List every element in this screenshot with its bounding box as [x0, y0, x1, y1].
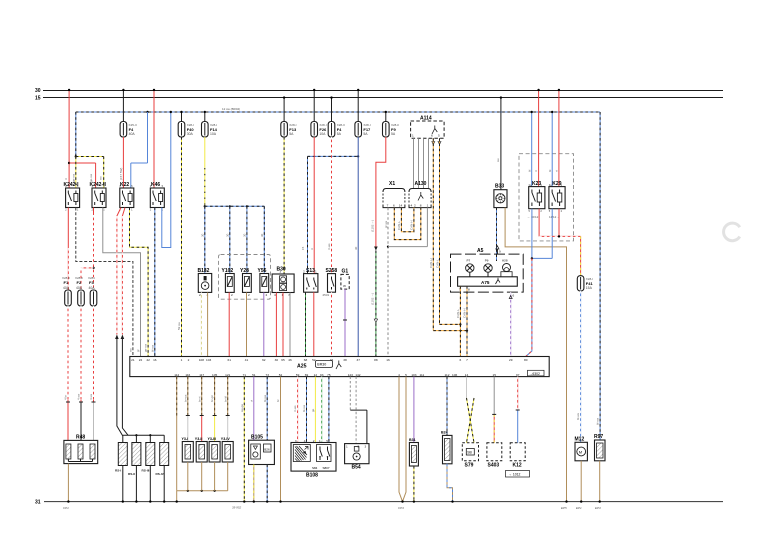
- wire F9 jog to sensor line (red): [370, 137, 385, 251]
- wire B30 out 1 (red): [275, 293, 277, 357]
- wire B132 out left (ge-ws): [200, 292, 202, 356]
- svg-text:B33: B33: [495, 184, 504, 190]
- svg-text:BR30: BR30: [317, 363, 326, 367]
- svg-text:br-bl: br-bl: [223, 396, 227, 402]
- wire A25 pin51 violet to B105: [253, 377, 255, 441]
- wire K23/K29 blue link: [531, 209, 553, 260]
- svg-text:CAN-H: CAN-H: [410, 221, 414, 231]
- svg-text:5A: 5A: [289, 132, 294, 136]
- svg-text:105: 105: [212, 373, 217, 377]
- svg-text:(157 5W): (157 5W): [119, 168, 123, 180]
- svg-text:42: 42: [146, 358, 150, 362]
- svg-text:40A: 40A: [89, 286, 96, 290]
- svg-text:A130: A130: [415, 181, 427, 187]
- svg-text:Y55: Y55: [258, 268, 267, 274]
- wire F3 to R48 (rt dashed then ws): [92, 306, 96, 440]
- svg-text:12: 12: [314, 373, 318, 377]
- fuse F1: [65, 290, 72, 306]
- bus 31: [44, 501, 723, 503]
- fuse F4 (5A) feed wire from bus 15: [330, 96, 332, 122]
- fuse F40: [178, 122, 194, 138]
- svg-text:rt-ws: rt-ws: [327, 243, 331, 250]
- svg-text:88: 88: [374, 358, 378, 362]
- wire A25 pin12 yellow to B108: [314, 377, 316, 443]
- svg-text:bl-sw: bl-sw: [302, 404, 306, 412]
- wire A25 pin52 brown to ground: [279, 377, 281, 503]
- svg-text:30A: 30A: [187, 132, 194, 136]
- svg-text:RS-III: RS-III: [142, 469, 150, 473]
- svg-text:ge-sw: ge-sw: [144, 343, 148, 352]
- svg-text:29: 29: [509, 358, 513, 362]
- A5 top pin 9: [496, 246, 501, 254]
- svg-text:CAN-H: CAN-H: [429, 259, 433, 269]
- wire B33 to H28 (bl-sw): [496, 208, 498, 261]
- svg-text:→ 10/12: → 10/12: [527, 215, 539, 219]
- svg-text:30: 30: [200, 233, 204, 237]
- svg-text:G1: G1: [342, 268, 349, 274]
- wire Y55 to A25 (violet): [263, 292, 265, 356]
- svg-text:30: 30: [243, 233, 247, 237]
- svg-text:69: 69: [305, 373, 309, 377]
- svg-text:rt-ws: rt-ws: [293, 405, 297, 412]
- fuse F4 5A: [328, 122, 345, 138]
- svg-text:61: 61: [227, 358, 231, 362]
- wire A25 pin114 brown to ground rail: [176, 377, 178, 503]
- svg-text:br-rt: br-rt: [197, 396, 201, 402]
- svg-text:B24: B24: [441, 431, 448, 435]
- R97 ground brown: [599, 461, 601, 503]
- svg-text:br: br: [276, 399, 280, 402]
- svg-text:16: 16: [386, 358, 390, 362]
- svg-text:A5: A5: [477, 248, 484, 254]
- svg-text:117: 117: [199, 373, 204, 377]
- svg-text:9: 9: [499, 250, 501, 254]
- fuse F26: [311, 122, 327, 138]
- svg-text:121: 121: [225, 373, 230, 377]
- svg-text:3: 3: [295, 439, 297, 443]
- svg-text:31: 31: [35, 500, 41, 506]
- A25 bottom pin numbers: [174, 373, 519, 377]
- svg-text:2: 2: [248, 293, 250, 297]
- svg-text:S13: S13: [306, 268, 315, 274]
- A75 CAN stubs (or-sw): [456, 286, 470, 330]
- svg-text:22: 22: [139, 358, 143, 362]
- motor B33: [494, 184, 507, 208]
- fuse F14: [202, 122, 218, 138]
- resistor B24: [441, 431, 452, 464]
- svg-text:bl: bl: [527, 169, 531, 172]
- resistor B31: [409, 438, 418, 466]
- svg-text:75: 75: [327, 373, 331, 377]
- svg-text:A25: A25: [297, 363, 307, 369]
- svg-text:(1102 →): (1102 →): [370, 293, 374, 305]
- svg-text:46: 46: [330, 358, 334, 362]
- svg-text:RS-II: RS-II: [128, 472, 135, 476]
- svg-text:ge: ge: [311, 408, 315, 412]
- fuse F2 label: [75, 276, 83, 290]
- svg-text:68: 68: [304, 358, 308, 362]
- valve group enclosure: [219, 255, 271, 300]
- svg-text:B105: B105: [251, 435, 263, 441]
- svg-text:16: 16: [153, 358, 157, 362]
- fuse F9: [383, 122, 400, 138]
- svg-text:6: 6: [460, 358, 462, 362]
- svg-text:41: 41: [245, 358, 249, 362]
- fuse F26 feed wire from bus 30: [313, 89, 315, 122]
- svg-text:15: 15: [301, 246, 305, 250]
- ignition bus left drop: [75, 112, 77, 157]
- svg-text:RS-I: RS-I: [115, 469, 121, 473]
- wire F14 down (yellow): [204, 137, 206, 208]
- svg-text:bl-sw: bl-sw: [596, 417, 600, 425]
- svg-text:6: 6: [431, 134, 433, 138]
- svg-text:bl-sw: bl-sw: [263, 394, 267, 402]
- svg-text:5: 5: [405, 373, 407, 377]
- svg-text:bl-ws: bl-ws: [576, 412, 580, 420]
- svg-text:EP1: EP1: [576, 506, 582, 510]
- svg-text:B108: B108: [306, 473, 318, 479]
- svg-text:rt: rt: [310, 248, 314, 250]
- wire A25 to Y3-IV (br-sw then ws): [226, 377, 230, 442]
- svg-text:X1: X1: [389, 181, 395, 187]
- wire K242-I switched output to A25 pin 21 (sw dashed): [76, 208, 133, 357]
- feed Y28 (bl-sw): [246, 206, 248, 273]
- sensor B132: [198, 268, 212, 297]
- svg-text:14: 14: [399, 204, 403, 208]
- watermark circle: [724, 223, 740, 241]
- svg-text:F2: F2: [77, 280, 82, 285]
- control unit A25: [130, 357, 549, 377]
- wire red from bus30 to K242 relays: [68, 89, 70, 188]
- svg-text:S79: S79: [465, 463, 474, 469]
- svg-text:108: 108: [199, 358, 204, 362]
- CAN U-link outer (or-sw): [394, 208, 421, 240]
- switch S258: [323, 268, 338, 297]
- svg-text:rt: rt: [534, 170, 538, 172]
- svg-text:B132: B132: [198, 268, 210, 274]
- svg-text:B30: B30: [277, 267, 286, 273]
- resistor RS-II: [128, 443, 141, 477]
- A130 pin1 grey wire joins: [388, 208, 427, 247]
- wire A25 pin103 violet to B31: [413, 377, 415, 443]
- wire A25 pins4/5 brown pair to ground point CP3: [399, 377, 406, 503]
- valve Y3-I: [182, 437, 194, 462]
- svg-text:CAN-L: CAN-L: [397, 221, 401, 230]
- svg-text:37: 37: [356, 358, 360, 362]
- sensor B105: [249, 435, 275, 465]
- svg-text:B54: B54: [352, 465, 361, 471]
- svg-text:46: 46: [288, 358, 292, 362]
- svg-text:→6302: →6302: [529, 372, 540, 376]
- fuse F4 (40A) feed wire from bus 30: [122, 89, 124, 122]
- wire A25 pin112 (bl-sw) to B24: [446, 377, 448, 436]
- svg-text:1: 1: [315, 270, 317, 274]
- svg-text:1: 1: [427, 204, 429, 208]
- svg-text:10A: 10A: [210, 132, 217, 136]
- fuse F3: [90, 290, 97, 306]
- wire G1 to A25 pin 38 (violet): [343, 289, 347, 356]
- A114 CAN pair (or-sw) down: [432, 138, 441, 330]
- fuse F41: [577, 276, 593, 291]
- svg-text:gr ws: gr ws: [384, 220, 388, 228]
- wire red branch to K242-II: [69, 163, 96, 188]
- valve Y55: [258, 268, 269, 297]
- lamp stubs to A75: [470, 272, 507, 277]
- svg-text:30: 30: [354, 246, 358, 250]
- svg-text:15: 15: [35, 96, 41, 102]
- svg-text:vi: vi: [249, 400, 253, 403]
- RS ground wires: [122, 466, 166, 503]
- wire blue drop from ignition bus to K22: [131, 111, 149, 188]
- switch S403: [487, 443, 502, 469]
- wire A25 pin14 (ws) to S79: [466, 377, 468, 398]
- B105 ground wires: [253, 465, 269, 503]
- fuse F2: [78, 290, 85, 306]
- svg-text:4: 4: [274, 293, 276, 297]
- ignition bus left drop dashes: [75, 112, 77, 157]
- wire F41 to M12 (bl-ws): [576, 291, 581, 442]
- svg-text:4 sw: 4 sw: [77, 393, 81, 400]
- wire to A25 pin 88 (gn-sw): [370, 251, 377, 357]
- svg-text:sw-ge: sw-ge: [240, 404, 244, 412]
- svg-text:73: 73: [265, 373, 269, 377]
- wire A25 to Y3-III (br-sw then ge): [213, 377, 217, 442]
- wire B132 out right (brown): [207, 292, 209, 356]
- svg-text:21: 21: [131, 358, 135, 362]
- svg-text:Y102: Y102: [222, 268, 234, 274]
- B31 ground (ye-sw): [413, 466, 415, 503]
- Y3 ground rail brown: [177, 490, 228, 492]
- wire Y102 to A25 (red): [228, 292, 230, 356]
- svg-text:CP3: CP3: [398, 506, 404, 510]
- fuse F13 feed wire from bus 15: [283, 96, 285, 122]
- svg-text:K46: K46: [151, 182, 160, 188]
- blower unit B108: [291, 439, 336, 479]
- svg-text:Y28: Y28: [240, 268, 249, 274]
- valve Y3-III: [208, 437, 221, 462]
- wire A25 pin59 red to B108: [297, 377, 299, 443]
- X1 pin7 grey-dash wire to A25 pin 16: [387, 208, 389, 357]
- reference arrow up 2: [121, 335, 125, 340]
- lamp H28: [501, 259, 512, 277]
- valve feed rail (bl-sw): [205, 205, 264, 207]
- svg-text:15A: 15A: [586, 286, 593, 290]
- svg-text:H28: H28: [502, 259, 508, 263]
- resistor block R48: [64, 435, 98, 464]
- wire S13 out left (gn-sw): [305, 292, 307, 356]
- svg-text:ge-sw: ge-sw: [71, 173, 75, 182]
- svg-text:59: 59: [296, 373, 300, 377]
- wire A25 pin75 (bl-sw) to B108: [328, 377, 330, 443]
- svg-text:65: 65: [281, 358, 285, 362]
- wire S13 out right (red): [313, 292, 315, 356]
- fuse F1 label: [62, 276, 70, 290]
- wire A25 pin73 (bl-sw) to B105: [266, 377, 268, 441]
- svg-text:bl-sw: bl-sw: [150, 344, 154, 352]
- wire F40 to A25 pin1 (ye-sw): [181, 137, 183, 357]
- resistor RS-III: [142, 443, 155, 473]
- svg-text:3: 3: [365, 445, 367, 449]
- wire A25 pin69 (bl-sw) to B108: [306, 377, 308, 443]
- CAN labels: [429, 259, 439, 269]
- svg-text:W: W: [343, 284, 346, 288]
- svg-text:30: 30: [275, 358, 279, 362]
- svg-text:7: 7: [387, 204, 389, 208]
- wire F17 to A25 pin 37 (dark blue): [357, 137, 359, 357]
- bus 30: [43, 90, 723, 92]
- relay K242-I: [64, 182, 80, 208]
- svg-text:4: 4: [398, 373, 400, 377]
- ignition bus right drop blue to R97: [599, 112, 601, 440]
- wire A25 pin142 (ws dashed) to B54: [355, 377, 357, 444]
- svg-text:2: 2: [358, 445, 360, 449]
- svg-text:Y3-I: Y3-I: [182, 437, 189, 441]
- svg-text:2: 2: [231, 293, 233, 297]
- svg-text:Y3-III: Y3-III: [208, 437, 217, 441]
- fuse F4 40A: [120, 122, 137, 138]
- svg-text:br-ws: br-ws: [183, 394, 187, 402]
- relay K29: [549, 181, 565, 209]
- wire K22 to A25 pin 42 (ye-sw): [130, 208, 149, 357]
- svg-text:bl: bl: [548, 169, 552, 172]
- wire K46 coil return loop (blue) to ignition bus: [162, 111, 172, 248]
- wire K23/K29 red link to F41: [539, 209, 581, 238]
- wire red bus30 to K23: [534, 89, 540, 187]
- Y3 ground stubs: [188, 462, 228, 491]
- svg-text:2531: 2531: [323, 293, 330, 297]
- wire A25 to Y3-I (br-sw then ws): [186, 377, 190, 442]
- svg-text:K22: K22: [120, 182, 129, 188]
- fuse F40 feed stub from ignition bus: [180, 111, 182, 122]
- wire ye-sw to K242-I coil: [75, 157, 77, 189]
- switch S79: [462, 443, 478, 469]
- wire bus15 to B33 (black): [496, 96, 502, 189]
- svg-text:F3: F3: [89, 280, 94, 285]
- svg-text:K12: K12: [513, 463, 522, 469]
- wire K242-I to fuse F1 (red): [67, 208, 69, 291]
- control panel A5: [451, 248, 524, 292]
- svg-text:2: 2: [199, 293, 201, 297]
- feed Y55 (bl-sw): [263, 206, 265, 273]
- wire F4 5A to S258 (rt dashed): [331, 137, 333, 274]
- svg-text:5A: 5A: [391, 132, 396, 136]
- svg-text:br-gn: br-gn: [210, 395, 214, 402]
- svg-text:R48: R48: [76, 435, 85, 441]
- sensor B30: [272, 267, 294, 298]
- reference arrow up 1: [115, 335, 119, 340]
- svg-text:2: 2: [266, 293, 268, 297]
- feed Y102 (bl-sw): [229, 206, 231, 273]
- svg-text:14: 14: [465, 373, 469, 377]
- K12 reference tag: [506, 471, 530, 478]
- svg-text:51: 51: [252, 373, 256, 377]
- svg-text:ge-sw: ge-sw: [89, 173, 93, 182]
- svg-text:111: 111: [420, 373, 425, 377]
- svg-text:2: 2: [313, 439, 315, 443]
- svg-text:6: 6: [393, 204, 395, 208]
- valve Y28: [240, 268, 251, 297]
- svg-text:rt: rt: [555, 170, 559, 172]
- module A75: [458, 277, 518, 286]
- svg-text:4 br: 4 br: [64, 395, 68, 400]
- svg-text:CP1: CP1: [63, 506, 69, 510]
- svg-text:B31: B31: [409, 438, 416, 442]
- ignition feed bus blue: [76, 111, 600, 113]
- fuse F17 feed wire from bus 30: [357, 89, 359, 122]
- M12 ground brown: [580, 461, 582, 503]
- svg-text:RS-IV: RS-IV: [156, 472, 165, 476]
- wire R48 ground (brown): [67, 464, 69, 503]
- svg-text:CAN-L: CAN-L: [456, 309, 460, 318]
- svg-text:→ 1012: → 1012: [509, 473, 521, 477]
- sensor B54: [345, 444, 369, 471]
- svg-text:P7: P7: [467, 259, 471, 263]
- svg-text:P9: P9: [485, 259, 489, 263]
- wire A25 pin71 (ye-sw) to ground: [243, 377, 245, 503]
- wire F2 to R48 (rt dashed then sw): [79, 306, 83, 440]
- wire K22 output pair (red dashed) to RS reference arrows: [117, 208, 125, 335]
- svg-text:M12: M12: [575, 436, 585, 442]
- svg-text:4 ws: 4 ws: [89, 393, 93, 400]
- svg-text:106: 106: [452, 373, 457, 377]
- CAN U-link inner (or-sw): [401, 208, 414, 232]
- wire ye-sw drop from ignition bus: [75, 155, 104, 157]
- svg-text:EP3: EP3: [595, 506, 601, 510]
- svg-text:116: 116: [185, 373, 190, 377]
- svg-text:8: 8: [468, 288, 470, 292]
- relay K46: [150, 182, 164, 208]
- wire A25 pin93 (gn-sw) to B108: [321, 377, 323, 443]
- lamp P7: [466, 259, 474, 273]
- svg-text:39 952: 39 952: [232, 506, 242, 510]
- fuse F13: [281, 122, 297, 138]
- svg-text:143: 143: [348, 373, 353, 377]
- svg-text:97: 97: [516, 373, 520, 377]
- relay pin numbers: [65, 184, 164, 212]
- svg-text:2: 2: [188, 358, 190, 362]
- svg-text:2: 2: [414, 204, 416, 208]
- wire K242-II switched output to A25 pin 22 (grey): [103, 208, 141, 357]
- bus 15: [43, 97, 723, 99]
- fuse F14 feed stub from ignition bus: [204, 111, 206, 122]
- svg-text:rt: rt: [64, 178, 68, 180]
- lamp P9: [484, 259, 492, 273]
- wire F1 to R48 (rt dashed then rt): [66, 306, 70, 440]
- svg-text:S84: S84: [312, 466, 318, 470]
- wire bl-rt down to A25 pin 80: [526, 258, 532, 356]
- svg-text:EP5: EP5: [561, 506, 567, 510]
- relay K22: [120, 182, 134, 208]
- wire B30 out 2 (red): [282, 293, 284, 357]
- wire S13 feed branch (bl-sw) from F17 line: [308, 155, 360, 273]
- wire K242-II to fuses F2/F3 (red dashed): [81, 208, 95, 291]
- valve Y3-II: [195, 437, 207, 462]
- wire blue K23 to ignition bus: [527, 111, 533, 187]
- CAN pair joins to A25 pins 6/7: [433, 323, 468, 356]
- X1 U-link labels: [384, 220, 414, 230]
- resistor RS-I: [115, 443, 127, 473]
- svg-text:40A: 40A: [63, 286, 70, 290]
- wire blue K29 to ignition bus: [548, 111, 554, 187]
- connector X1: [383, 181, 405, 208]
- svg-text:71: 71: [243, 373, 247, 377]
- svg-text:103: 103: [206, 358, 211, 362]
- svg-text:1: 1: [346, 445, 348, 449]
- fuse F17: [355, 122, 371, 138]
- resistor RS-IV: [156, 443, 169, 477]
- svg-text:62: 62: [262, 358, 266, 362]
- svg-text:B26: B26: [264, 447, 270, 451]
